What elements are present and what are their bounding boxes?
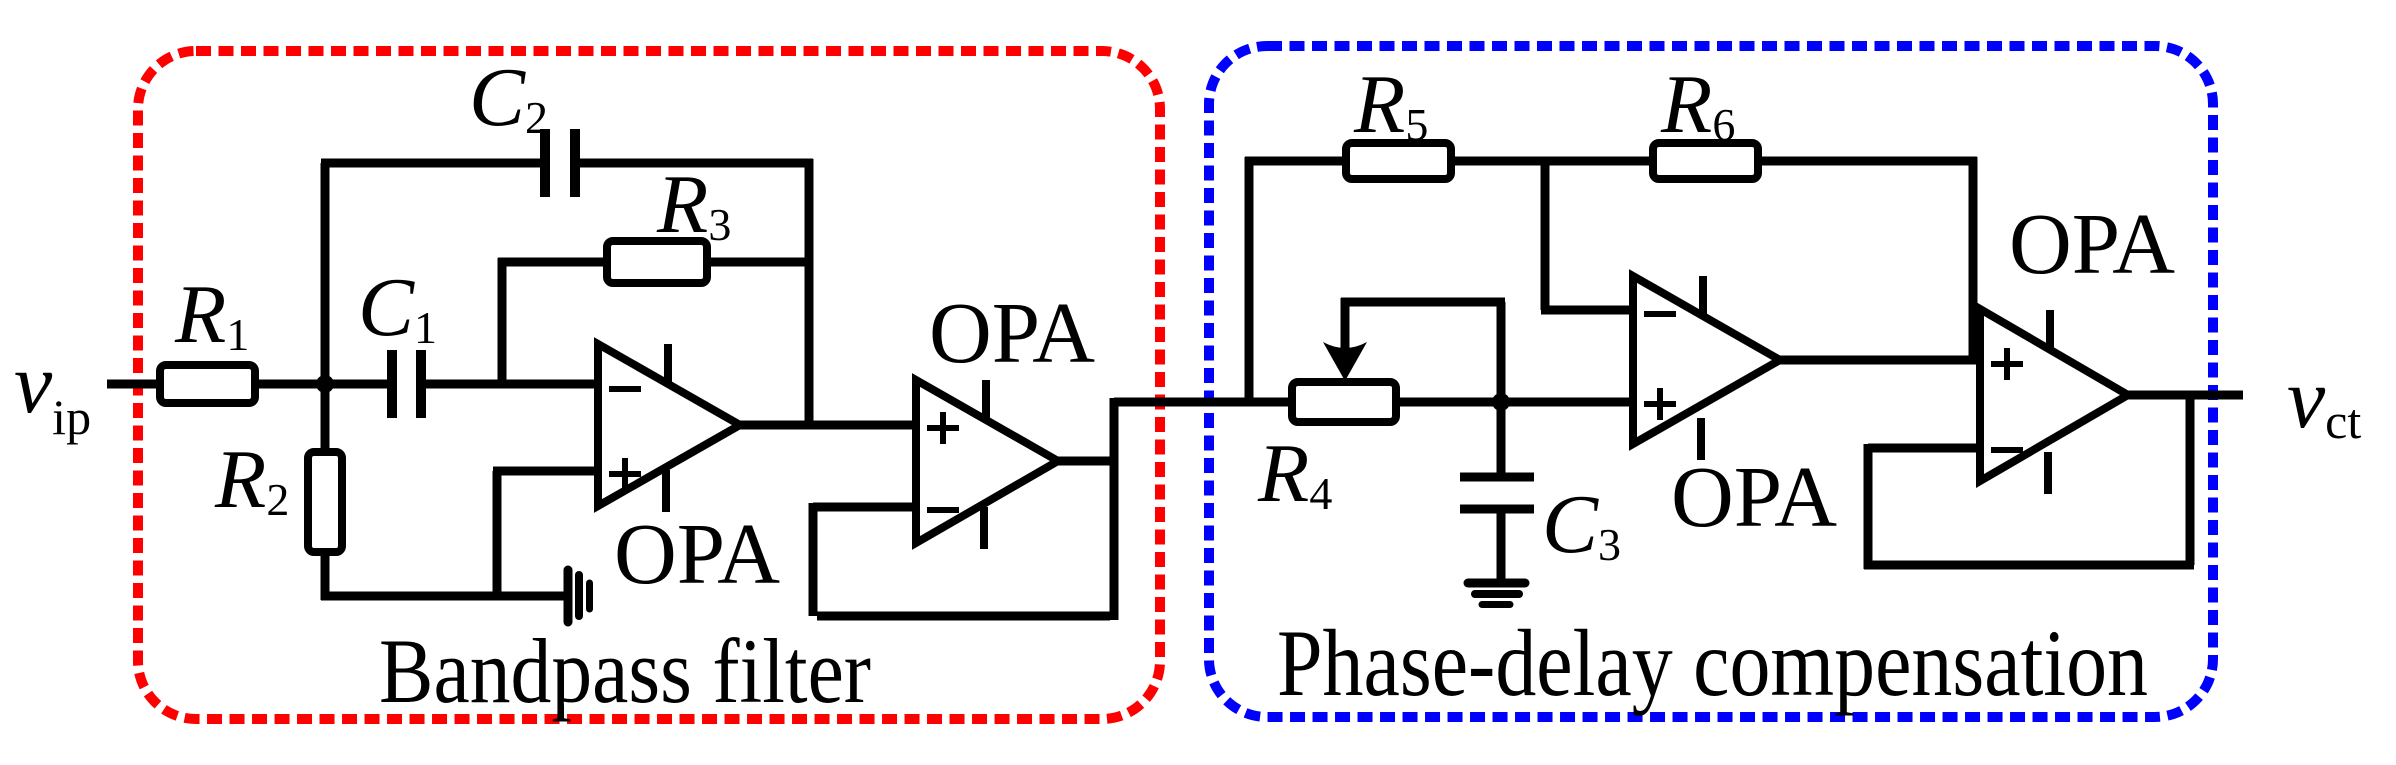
wire C3 to ground — [1497, 509, 1506, 583]
svg-text:OPA: OPA — [2009, 195, 2175, 292]
capacitor C2 — [545, 129, 575, 197]
svg-text:Bandpass filter: Bandpass filter — [379, 620, 871, 722]
resistor R1 — [160, 365, 255, 403]
wire R5R6 node down — [1541, 157, 1550, 310]
op-amp U4 OPA — [1980, 309, 2128, 494]
wire op1 output to op2 input — [740, 421, 916, 430]
wire R5 to R6 lead — [1451, 157, 1653, 166]
resistor R3 — [607, 241, 707, 283]
resistor R6 — [1653, 143, 1758, 179]
wire input vip to R1 — [107, 380, 160, 389]
wire op3 inverting input lead — [1541, 306, 1637, 315]
wire R1 to node A — [255, 380, 388, 389]
wire op4 feedback vertical right — [2186, 395, 2195, 565]
capacitor C3 (horizontal plates) — [1460, 477, 1534, 509]
wire C1 to op1 inverting input — [426, 380, 598, 389]
capacitor C1 — [392, 350, 421, 418]
potentiometer R4 arrowhead — [1323, 342, 1367, 381]
resistor R4 — [1292, 382, 1396, 422]
wire R5 left lead — [1245, 157, 1346, 166]
wire op1 noninverting input lead — [493, 467, 598, 476]
wire op2 output to feedback node — [1058, 457, 1118, 466]
resistor R5 — [1346, 143, 1451, 179]
wire R4 wiper top — [1341, 298, 1350, 352]
wire op1 noninv down to ground rail — [493, 471, 502, 600]
wire top rail to C2 left — [321, 159, 541, 168]
svg-text:OPA: OPA — [1671, 448, 1837, 545]
wire R6 right lead — [1758, 157, 1977, 166]
wire op4 feedback inverting lead — [1868, 444, 1980, 453]
node B junction dot — [1492, 393, 1510, 411]
ground (below C3, down-pointing) — [1468, 583, 1525, 605]
bandpass filter red dashed box — [138, 51, 1160, 719]
wire op4 output to vct — [2128, 391, 2243, 400]
wire R6 feedback vertical — [1969, 157, 1978, 360]
svg-text:Phase-delay compensation: Phase-delay compensation — [1277, 610, 2148, 716]
wire op3 output to op4 input — [1780, 356, 1980, 365]
wire C2 right to corner — [579, 159, 813, 168]
wire left rail up — [1245, 157, 1254, 402]
svg-text:OPA: OPA — [929, 284, 1095, 381]
op-amp U2 OPA — [916, 380, 1058, 549]
wire node A rail up to top rail — [321, 163, 330, 452]
wire op2 inverting input lead — [813, 503, 916, 512]
svg-text:OPA: OPA — [614, 505, 780, 602]
wire R4 wiper horizontal — [1341, 298, 1505, 307]
wire op2 feedback vertical right — [1110, 398, 1119, 620]
op-amp U1 OPA — [598, 344, 740, 512]
wire corner down to op1 output — [805, 159, 814, 425]
resistor R2 — [308, 452, 342, 552]
wire R3 tap vertical — [498, 258, 507, 384]
op-amp U3 OPA — [1633, 276, 1780, 460]
wire op2 feedback bottom — [817, 612, 1110, 621]
wire R3 left lead — [498, 258, 607, 267]
wire R2 bottom lead — [321, 552, 330, 600]
wire wiper down to node B — [1497, 302, 1506, 402]
wire node B down to C3 — [1497, 402, 1506, 477]
ground (bandpass, right-pointing) — [568, 570, 590, 622]
wire ground rail bottom — [321, 592, 566, 601]
wire op4 feedback vertical left — [1864, 444, 1873, 569]
node A junction dot — [316, 375, 334, 393]
phase-delay compensation blue dashed box — [1209, 46, 2213, 717]
wire R3 right lead — [707, 258, 813, 267]
wire bandpass output to phase section — [1114, 398, 1637, 407]
wire op2 feedback vertical left — [809, 503, 818, 616]
wire op4 feedback bottom — [1864, 561, 2194, 570]
